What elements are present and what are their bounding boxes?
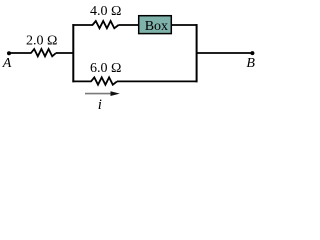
- bottom branch wire to R3: [72, 80, 91, 82]
- wire R3 to right junction: [117, 80, 198, 82]
- svg-text:A: A: [2, 56, 12, 71]
- svg-text:Box: Box: [145, 19, 168, 34]
- node A: [7, 51, 11, 55]
- wire Box to right junction: [172, 24, 198, 26]
- resistor R3 6.0 ohm: [91, 77, 117, 84]
- svg-text:4.0 Ω: 4.0 Ω: [90, 4, 121, 19]
- svg-text:6.0 Ω: 6.0 Ω: [90, 61, 121, 76]
- right junction vertical wire: [196, 24, 198, 82]
- Box element: [139, 16, 172, 34]
- wire R2 to Box: [119, 24, 140, 26]
- svg-text:B: B: [246, 56, 255, 71]
- node B: [250, 51, 254, 55]
- svg-text:i: i: [98, 97, 102, 113]
- left junction vertical wire: [72, 24, 74, 82]
- wire A to R1: [9, 52, 32, 54]
- resistor R2 4.0 ohm: [93, 21, 119, 28]
- resistor R1 2.0 ohm: [31, 49, 56, 56]
- wire R1 to left junction: [56, 52, 74, 54]
- current arrow i: [85, 93, 112, 95]
- wire right junction to B: [197, 52, 252, 54]
- svg-text:2.0 Ω: 2.0 Ω: [26, 34, 57, 49]
- top branch wire to R2: [72, 24, 93, 26]
